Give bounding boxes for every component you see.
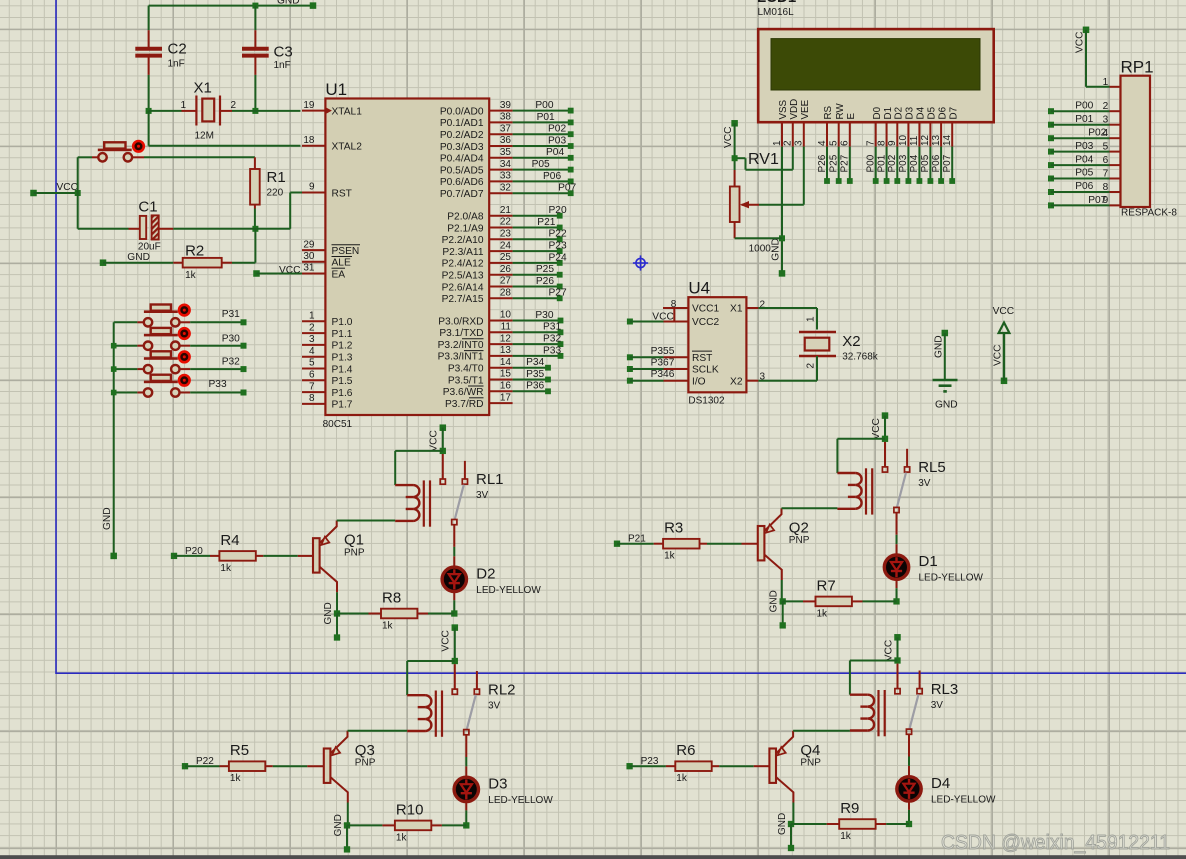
- svg-text:P1.5: P1.5: [332, 376, 353, 387]
- svg-text:R2: R2: [185, 243, 204, 260]
- terminal: GND (Q1): [334, 634, 340, 640]
- svg-text:P2.0/A8: P2.0/A8: [447, 212, 484, 223]
- svg-text:VCC1: VCC1: [692, 304, 720, 315]
- wire + net label P07: [513, 183, 577, 197]
- resistor R6 1k: [666, 742, 719, 784]
- svg-text:5: 5: [1103, 141, 1109, 152]
- svg-text:P1.3: P1.3: [332, 353, 353, 364]
- svg-text:P1.2: P1.2: [332, 341, 353, 352]
- svg-text:LED-YELLOW: LED-YELLOW: [476, 585, 541, 596]
- svg-text:GND: GND: [102, 507, 113, 530]
- svg-text:SCLK: SCLK: [692, 365, 719, 376]
- wire + net label P34: [513, 357, 551, 370]
- svg-text:P3.2/INT0: P3.2/INT0: [438, 340, 484, 351]
- LCD wire + rotated net label P00: [866, 147, 879, 184]
- wire + net label P30: [513, 310, 564, 324]
- RP1 pin 7 wire + net label P05: [1048, 168, 1121, 182]
- svg-text:3: 3: [1103, 115, 1109, 126]
- U1 pin 16 P3.6/WR (right): [443, 381, 513, 399]
- svg-text:P01: P01: [1075, 114, 1093, 125]
- relay RL5 contact pin 1: [884, 442, 886, 467]
- svg-text:P30: P30: [222, 333, 240, 344]
- svg-text:37: 37: [500, 123, 512, 134]
- svg-text:6: 6: [309, 370, 315, 381]
- wire: P21 to R3: [617, 543, 654, 545]
- wire + net label P02: [513, 124, 574, 138]
- wire: C3 top: [254, 6, 256, 31]
- LCD pin 6 E: [840, 113, 857, 147]
- RTC U4 DS1302: [688, 279, 746, 407]
- marker: blue crosshair: [633, 255, 648, 270]
- resistor R3 1k: [654, 520, 707, 562]
- relay RL5 contact pin 3: [894, 507, 899, 512]
- U1 pin 24 P2.3/A11 (right): [442, 240, 512, 258]
- relay RL3 contact pin 2: [919, 671, 921, 689]
- wire: collector down to GND row: [781, 580, 783, 601]
- wire: GND stem: [346, 825, 348, 849]
- U1 pin 30 ALE (left): [302, 251, 352, 269]
- svg-text:P00: P00: [1075, 100, 1093, 111]
- wire: RST net to pin 9: [255, 228, 290, 230]
- svg-text:GND: GND: [333, 814, 344, 836]
- wire: base lead: [307, 765, 324, 767]
- svg-text:1k: 1k: [396, 832, 408, 843]
- wire: emitter to relay coil: [793, 730, 850, 732]
- svg-text:1: 1: [806, 316, 817, 322]
- svg-text:VCC2: VCC2: [692, 317, 720, 328]
- junction: RST net: [252, 226, 258, 232]
- svg-text:P1.7: P1.7: [332, 400, 353, 411]
- transistor Q1 PNP: [313, 521, 365, 593]
- svg-text:33: 33: [500, 171, 512, 182]
- wire: crystal X2 to pin X2: [816, 356, 818, 381]
- svg-text:P26: P26: [817, 154, 828, 172]
- svg-text:30: 30: [303, 251, 315, 262]
- svg-text:9: 9: [887, 140, 898, 146]
- wire + net label P00: [513, 100, 574, 114]
- svg-text:P06: P06: [543, 171, 561, 182]
- svg-text:P32: P32: [222, 357, 240, 368]
- U1 pin 39 P0.0/AD0 (right): [440, 100, 513, 118]
- wire + net label P35: [513, 369, 551, 383]
- wire: GND row to R9: [791, 823, 827, 825]
- junction: LED bottom node: [451, 610, 457, 616]
- RP1 pin 9 wire + net label P07: [1048, 195, 1121, 209]
- wire: C3 bottom to XTAL1 net: [254, 75, 256, 111]
- svg-text:P04: P04: [546, 147, 564, 158]
- push button (reset): [78, 141, 144, 162]
- svg-text:P3.3/INT1: P3.3/INT1: [438, 352, 484, 363]
- terminal: top GND: [310, 2, 317, 9]
- svg-text:P00: P00: [866, 154, 877, 172]
- svg-text:5: 5: [829, 140, 840, 146]
- svg-text:RL5: RL5: [918, 459, 946, 476]
- wire + net label P20: [513, 205, 567, 219]
- LCD pin 12 D5: [920, 106, 937, 146]
- svg-text:1k: 1k: [382, 621, 394, 632]
- junction: RL2 VCC node: [452, 658, 458, 664]
- wire: GND stem: [782, 601, 784, 625]
- wire: VEE to pot wiper: [803, 147, 805, 205]
- terminal: P21 input: [614, 541, 620, 547]
- resistor R1 220: [250, 157, 286, 208]
- U4 pin8 number + wire VCC1 to VCC2: [663, 299, 677, 322]
- svg-text:P2.5/A13: P2.5/A13: [442, 271, 484, 282]
- wire: top GND net horizontal: [149, 5, 313, 7]
- svg-text:1k: 1k: [840, 831, 852, 842]
- resistor R4 1k: [210, 532, 263, 574]
- wire: R5 to Q3 base: [273, 765, 308, 767]
- svg-text:P0.0/AD0: P0.0/AD0: [440, 106, 484, 117]
- svg-text:VSS: VSS: [778, 99, 789, 119]
- svg-text:VCC: VCC: [871, 418, 882, 440]
- svg-text:P0.7/AD7: P0.7/AD7: [440, 189, 484, 200]
- svg-text:P2.2/A10: P2.2/A10: [442, 235, 484, 246]
- svg-text:80C51: 80C51: [323, 419, 353, 430]
- svg-text:7: 7: [1103, 168, 1109, 179]
- wire VCC2 + terminal + label (with pin5/7/6 nums as shown): [627, 311, 674, 324]
- svg-text:2: 2: [231, 100, 237, 111]
- LCD pin 4 RS: [817, 105, 834, 146]
- svg-text:11: 11: [909, 135, 920, 146]
- svg-text:LED-YELLOW: LED-YELLOW: [488, 795, 553, 806]
- svg-text:PNP: PNP: [355, 758, 376, 769]
- U1 pin 28 P2.7/A15 (right): [442, 288, 513, 306]
- wire: collector down to GND row: [347, 803, 349, 826]
- wire: VCC stem RL1: [442, 428, 444, 451]
- svg-text:P03: P03: [548, 135, 566, 146]
- svg-text:8: 8: [876, 140, 887, 146]
- svg-text:1: 1: [180, 100, 186, 111]
- svg-text:P0.1/AD1: P0.1/AD1: [440, 118, 484, 129]
- wire + net label P31: [190, 309, 246, 325]
- wire: VCC stem RL3: [897, 637, 899, 660]
- svg-text:1000: 1000: [749, 243, 772, 254]
- svg-text:18: 18: [303, 135, 315, 146]
- svg-text:P36: P36: [526, 381, 544, 392]
- wire + net label P32: [190, 357, 246, 373]
- svg-text:21: 21: [500, 205, 512, 216]
- svg-text:R10: R10: [396, 801, 424, 818]
- svg-text:RL3: RL3: [931, 681, 959, 698]
- svg-text:11: 11: [501, 322, 512, 333]
- wire: R6 to Q4 base: [719, 765, 754, 767]
- wire: R7 to LED node: [863, 600, 897, 602]
- svg-text:2: 2: [309, 322, 315, 333]
- svg-text:VCC: VCC: [723, 126, 734, 148]
- svg-text:X2: X2: [842, 333, 860, 350]
- svg-text:RST: RST: [332, 188, 352, 199]
- svg-text:26: 26: [500, 264, 512, 275]
- svg-text:R7: R7: [817, 577, 836, 594]
- transistor Q2 PNP: [758, 508, 810, 580]
- svg-text:P31: P31: [543, 322, 561, 333]
- svg-text:Q4: Q4: [800, 742, 820, 759]
- wire: VCC to RP1 pin 1: [1085, 30, 1087, 87]
- svg-text:P31: P31: [222, 309, 240, 320]
- svg-text:PSEN: PSEN: [332, 246, 360, 257]
- svg-text:GND: GND: [323, 602, 334, 624]
- svg-text:13: 13: [931, 134, 942, 146]
- junction: collector/GND: [788, 821, 794, 827]
- junction: VSS/pot bottom: [779, 235, 785, 241]
- svg-text:36: 36: [500, 135, 512, 146]
- terminal: P23 input: [626, 763, 632, 769]
- svg-text:VCC: VCC: [883, 640, 894, 662]
- svg-text:RESPACK-8: RESPACK-8: [1121, 208, 1177, 219]
- wire: button bus (GND): [113, 322, 115, 556]
- svg-text:P1.6: P1.6: [332, 388, 353, 399]
- U4 pin X2 (right): [730, 371, 765, 387]
- svg-text:D0: D0: [872, 106, 883, 119]
- wire: VSS down to pot bottom / GND: [781, 147, 783, 274]
- wire + net label P32: [513, 334, 564, 348]
- svg-text:P367: P367: [651, 358, 675, 369]
- LCD1 LM016L display: [757, 0, 994, 122]
- wire: X1 to crystal X2: [758, 307, 817, 309]
- resistor R2 1k: [173, 243, 232, 282]
- svg-text:VCC: VCC: [1075, 31, 1086, 53]
- terminal: VCC for RL2: [452, 624, 459, 631]
- svg-text:C2: C2: [168, 41, 187, 58]
- svg-text:P02: P02: [1088, 128, 1106, 139]
- wire: relay pole to LED: [896, 513, 898, 535]
- terminal: GND (Q2): [780, 622, 786, 628]
- svg-text:XTAL2: XTAL2: [332, 142, 363, 153]
- svg-text:14: 14: [500, 357, 512, 368]
- wire: C2 bottom to XTAL net: [148, 75, 150, 111]
- U1 pin 15 P3.5/T1 (right): [448, 369, 513, 387]
- crystal X1: [180, 80, 236, 142]
- svg-text:P25: P25: [536, 264, 554, 275]
- svg-text:P05: P05: [1075, 168, 1093, 179]
- wire + net label P36: [513, 381, 551, 394]
- svg-text:D5: D5: [927, 106, 938, 119]
- wire: R3 to Q2 base: [707, 543, 742, 545]
- LCD wire + rotated net label P04: [909, 147, 922, 184]
- svg-text:1k: 1k: [220, 563, 232, 574]
- U1 pin 37 P0.2/AD2 (right): [440, 123, 513, 141]
- relay RL1 contact pin 1: [442, 454, 444, 479]
- svg-text:P0.3/AD3: P0.3/AD3: [440, 142, 484, 153]
- svg-text:GND: GND: [777, 813, 788, 835]
- wire: RL1 coil feed: [395, 450, 443, 452]
- U1 pin 12 P3.2/INT0 (right): [438, 333, 513, 351]
- relay RL3 contact pin 1: [897, 664, 899, 689]
- wire: base lead: [754, 765, 770, 767]
- wire: VCC to reset divider: [34, 192, 78, 194]
- wire + net label P26: [513, 276, 563, 290]
- crystal X2 32.768k: [799, 316, 879, 369]
- svg-text:23: 23: [500, 229, 512, 240]
- svg-text:LED-YELLOW: LED-YELLOW: [919, 573, 984, 584]
- svg-text:P0.5/AD5: P0.5/AD5: [440, 165, 484, 176]
- wire: RV1 bottom to VSS junction: [735, 237, 782, 239]
- relay RL2 contact pin 1: [454, 664, 456, 689]
- svg-text:D1: D1: [919, 553, 938, 570]
- relay RL1: [395, 454, 503, 527]
- wire: GND stem: [790, 824, 792, 848]
- LED D1 LED-YELLOW: [884, 553, 983, 584]
- junction: RL5 VCC node: [882, 436, 888, 442]
- svg-text:GND: GND: [277, 0, 300, 7]
- svg-text:CSDN @weixin_45912211: CSDN @weixin_45912211: [941, 831, 1170, 854]
- svg-text:R4: R4: [220, 532, 239, 549]
- svg-text:3V: 3V: [931, 700, 944, 711]
- U1 pin 21 P2.0/A8 (right): [447, 205, 512, 223]
- wire: emitter to relay coil: [348, 730, 408, 732]
- wire + net label P03: [513, 135, 574, 149]
- terminal: P20 input: [171, 553, 177, 559]
- svg-text:P22: P22: [549, 229, 567, 240]
- wire + net label P31: [513, 322, 564, 335]
- relay RL2 contact pin 2: [476, 671, 478, 689]
- svg-text:P0.4/AD4: P0.4/AD4: [440, 154, 484, 165]
- wire: X1 pin2 to XTAL1 pin: [232, 110, 300, 112]
- relay RL2 contact pin 3: [464, 730, 469, 735]
- svg-text:RL1: RL1: [476, 471, 504, 488]
- svg-text:PNP: PNP: [344, 547, 365, 558]
- relay RL2 switch blade: [467, 695, 476, 730]
- relay RL1 contact pin 3: [452, 520, 457, 525]
- svg-text:X1: X1: [194, 80, 212, 97]
- VCC power arrow (center): [993, 306, 1015, 384]
- svg-text:Q1: Q1: [344, 532, 364, 549]
- U1 pin 31 EA (left): [302, 263, 345, 281]
- U1 pin 13 P3.3/INT1 (right): [438, 345, 513, 363]
- junction: RV1 top node: [732, 155, 738, 161]
- svg-text:D3: D3: [905, 106, 916, 119]
- wire: R8 to LED node: [428, 613, 454, 615]
- svg-text:14: 14: [942, 134, 953, 146]
- svg-text:35: 35: [500, 147, 512, 158]
- wire: R10 to LED node: [442, 824, 466, 826]
- svg-text:D1: D1: [883, 107, 894, 120]
- relay RL3 switch blade: [910, 694, 919, 729]
- LCD wire + rotated net label P27: [840, 147, 853, 184]
- svg-text:1k: 1k: [676, 773, 688, 784]
- svg-text:EA: EA: [332, 269, 346, 280]
- terminal: VCC left: [30, 190, 37, 197]
- svg-text:25: 25: [500, 252, 512, 263]
- ground symbol (center): [933, 330, 958, 411]
- svg-text:28: 28: [500, 288, 512, 299]
- svg-text:22: 22: [500, 217, 512, 228]
- svg-text:16: 16: [500, 381, 512, 392]
- transistor Q4 PNP: [769, 731, 821, 803]
- wire: button to R1 top: [144, 156, 255, 158]
- svg-text:P0.2/AD2: P0.2/AD2: [440, 130, 484, 141]
- potentiometer RV1 1000: [730, 151, 779, 254]
- svg-text:3V: 3V: [918, 478, 931, 489]
- svg-text:1: 1: [309, 311, 315, 322]
- LCD wire + rotated net label P05: [920, 147, 933, 184]
- wire: P23 to R6: [630, 765, 666, 767]
- svg-text:24: 24: [500, 240, 512, 251]
- wire: GND term to R2: [103, 262, 173, 264]
- svg-text:P26: P26: [536, 276, 554, 287]
- svg-text:P20: P20: [549, 205, 567, 216]
- junction: top GND at C3: [252, 3, 258, 9]
- wire + net label P24: [513, 252, 567, 266]
- svg-text:GND: GND: [769, 590, 780, 612]
- U1 pin 26 P2.5/A13 (right): [442, 264, 513, 282]
- svg-text:3: 3: [309, 334, 315, 345]
- wire: GND stem: [336, 614, 338, 638]
- svg-text:DS1302: DS1302: [688, 395, 725, 406]
- LCD pin 1 VSS: [772, 99, 789, 146]
- LCD pin 7 D0: [866, 106, 883, 146]
- terminal: GND (Q3): [344, 846, 350, 852]
- U1 pin 8 P1.7 (left): [302, 393, 353, 411]
- wire: LED to R10 row: [465, 801, 467, 810]
- svg-text:Q2: Q2: [789, 520, 809, 537]
- wire: R1 bottom to C1 net: [254, 209, 256, 229]
- svg-text:1: 1: [1103, 77, 1109, 88]
- wire: C1 to RST junction: [173, 228, 255, 230]
- wire + net label P33: [513, 345, 564, 359]
- wire: GND row to R8: [337, 613, 369, 615]
- terminal: VCC (EA pin): [253, 270, 260, 277]
- terminal: VCC above RV1: [731, 120, 738, 127]
- svg-text:2: 2: [783, 140, 794, 146]
- svg-text:RV1: RV1: [748, 151, 779, 168]
- LCD wire + rotated net label P01: [876, 147, 889, 184]
- terminal: GND (Q4): [788, 845, 794, 851]
- svg-text:D7: D7: [948, 107, 959, 120]
- svg-text:R3: R3: [664, 520, 683, 537]
- relay RL1 contact pin 2: [464, 461, 466, 479]
- terminal: GND (R2): [100, 259, 107, 266]
- svg-text:P07: P07: [558, 183, 576, 194]
- terminal: VCC for RL5: [882, 412, 889, 419]
- U1 pin 25 P2.4/A12 (right): [442, 252, 513, 270]
- svg-text:R1: R1: [267, 169, 286, 186]
- svg-text:XTAL1: XTAL1: [332, 106, 363, 117]
- svg-text:1: 1: [772, 140, 783, 146]
- svg-text:X1: X1: [730, 304, 743, 315]
- svg-text:R5: R5: [230, 742, 249, 759]
- wire: collector down to GND row: [336, 592, 338, 613]
- relay RL5 contact pin 2: [906, 449, 908, 467]
- svg-text:RL2: RL2: [488, 681, 516, 698]
- svg-text:1k: 1k: [230, 773, 242, 784]
- U1 pin 4 P1.3 (left): [302, 346, 353, 364]
- wire: relay pole to LED: [453, 525, 455, 547]
- svg-text:D2: D2: [476, 565, 495, 582]
- wire: emitter to relay coil: [337, 520, 396, 522]
- U1 pin 10 P3.0/RXD (right): [438, 310, 512, 328]
- RP1 pin 6 wire + net label P04: [1048, 154, 1121, 168]
- wire + net label P30: [190, 333, 246, 348]
- svg-text:D4: D4: [931, 775, 950, 792]
- U4 pin VCC1 (left): [664, 304, 720, 315]
- svg-text:P06: P06: [931, 154, 942, 172]
- wire: VCC to EA: [257, 273, 303, 275]
- U1 pin 2 P1.1 (left): [302, 322, 353, 340]
- junction: LED bottom node: [906, 821, 912, 827]
- resistor pack RP1 RESPACK-8: [1121, 58, 1178, 219]
- LCD pin 3 VEE: [794, 99, 811, 146]
- svg-text:9: 9: [309, 182, 315, 193]
- svg-text:7: 7: [309, 381, 315, 392]
- LCD wire + rotated net label P02: [887, 147, 900, 184]
- svg-text:1k: 1k: [664, 551, 676, 562]
- wire + net label P06: [513, 171, 574, 185]
- wire: relay pole to LED: [465, 735, 467, 757]
- svg-text:VCC: VCC: [652, 311, 674, 322]
- LCD wire + rotated net label P03: [898, 147, 911, 184]
